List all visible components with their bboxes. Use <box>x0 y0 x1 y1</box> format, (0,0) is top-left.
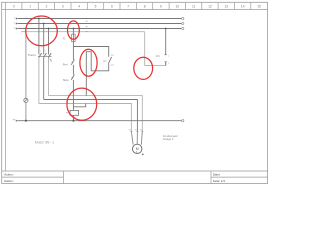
svg-text:5: 5 <box>95 5 97 9</box>
wire motor lead W <box>141 132 142 145</box>
terminal L1 end <box>182 17 184 19</box>
svg-text:3: 3 <box>45 51 46 53</box>
wire control lower <box>72 80 74 111</box>
svg-text:Trenn: Trenn <box>28 53 36 57</box>
svg-text:13: 13 <box>225 5 229 9</box>
marker L2 start <box>16 22 18 24</box>
connector X4 pins <box>164 55 167 62</box>
wire tap L3 <box>48 29 50 55</box>
terminal box X2 <box>70 110 79 115</box>
line start markers <box>16 17 18 121</box>
node lamp to PE <box>25 120 27 122</box>
wire run C <box>39 104 131 132</box>
svg-text:6: 6 <box>48 61 49 63</box>
wire run A <box>49 96 143 132</box>
switch pole 3 blade <box>48 53 51 58</box>
node connector tap <box>165 28 167 30</box>
svg-text:0: 0 <box>13 5 15 9</box>
svg-text:2: 2 <box>46 5 48 9</box>
svg-text:1: 1 <box>40 51 41 53</box>
ruler bottom line <box>2 9 268 11</box>
ruler cell dividers <box>6 3 251 10</box>
wire connector bottom stub <box>165 62 167 66</box>
svg-text:Datei:: Datei: <box>213 173 221 177</box>
wire tap L1 <box>38 19 40 55</box>
svg-text:5: 5 <box>49 51 50 53</box>
node tap L3 <box>48 28 50 30</box>
svg-text:Motor 3N~ 1: Motor 3N~ 1 <box>35 141 54 145</box>
wire tap L2 <box>43 24 45 55</box>
pushbutton Frei (NO) <box>71 59 74 64</box>
wire PE line <box>18 120 181 122</box>
svg-text:Stop: Stop <box>63 78 69 82</box>
title block <box>2 171 268 184</box>
terminal PE end <box>182 120 184 122</box>
svg-text:V1: V1 <box>135 130 137 132</box>
marker L3 start <box>16 27 18 29</box>
svg-text:Anlage 3: Anlage 3 <box>163 137 174 141</box>
line end terminals <box>182 17 184 121</box>
wire hook to run C <box>73 104 85 107</box>
disconnector Q1 3-pole switch <box>39 53 52 58</box>
svg-text:1X4: 1X4 <box>155 55 160 58</box>
wire N bus <box>21 31 145 33</box>
svg-text:1: 1 <box>29 5 31 9</box>
wire phase drop 2 <box>43 58 45 100</box>
svg-text:9: 9 <box>160 5 162 9</box>
svg-text:M: M <box>136 147 139 151</box>
node fuse tap <box>73 28 75 30</box>
svg-text:14: 14 <box>241 5 245 9</box>
svg-text:15: 15 <box>257 5 261 9</box>
switch linkage bar <box>38 55 52 57</box>
svg-text:7: 7 <box>127 5 129 9</box>
lamp / connector circle on N branch <box>24 98 28 102</box>
contact K1 13/14 <box>109 57 112 63</box>
wire fuse branch top <box>72 29 74 35</box>
terminal L2 end <box>182 22 184 24</box>
svg-text:Frei: Frei <box>63 63 68 67</box>
highlight ellipse E2 <box>68 21 80 39</box>
pushbutton Stop <box>71 75 74 80</box>
wire connector top <box>165 29 167 55</box>
wire lamp to PE line <box>25 102 27 120</box>
svg-text:4: 4 <box>78 5 80 9</box>
svg-text:Seite: 1/1: Seite: 1/1 <box>213 179 226 183</box>
svg-text:8: 8 <box>144 5 146 9</box>
fuse F1 <box>72 34 75 42</box>
switch pin numbers <box>38 51 50 64</box>
pin labels U1 V1 W1 <box>129 130 143 132</box>
conductor number marks <box>86 21 88 31</box>
junction dots <box>25 18 167 122</box>
motor terminal ticks <box>130 130 143 132</box>
wire phase drop 3 <box>48 58 50 96</box>
node box to PE <box>72 120 74 122</box>
wire junction to contact branch <box>73 47 108 57</box>
motor leads <box>131 132 142 145</box>
wire N drop to connector <box>145 32 166 66</box>
switch handle stub <box>50 59 52 62</box>
svg-text:Datum:: Datum: <box>4 179 14 183</box>
terminal L3 end <box>182 27 184 29</box>
ruler numbers <box>13 5 261 9</box>
wire L2 <box>18 23 181 25</box>
svg-text:6: 6 <box>111 5 113 9</box>
svg-text:11: 11 <box>192 5 196 9</box>
wire fuse to junction <box>72 42 74 47</box>
marker PE start <box>16 120 18 122</box>
wire L3 <box>18 28 181 30</box>
switch pole 1 blade <box>39 53 42 58</box>
wire contact bottom loop <box>86 52 108 96</box>
svg-text:4: 4 <box>43 61 44 63</box>
marker L1 start <box>16 17 18 19</box>
motor M1 <box>133 144 144 155</box>
wire motor lead V <box>136 132 138 145</box>
page outer border <box>2 2 268 183</box>
wire motor lead U <box>131 132 133 145</box>
wire control vertical upper <box>72 47 74 60</box>
highlight ellipse E3 <box>80 49 97 76</box>
wire L1 <box>18 18 181 20</box>
svg-text:10: 10 <box>176 5 180 9</box>
wire run B <box>44 100 138 132</box>
wire box to PE <box>72 115 74 120</box>
svg-text:12: 12 <box>208 5 212 9</box>
left inner border <box>4 10 6 172</box>
highlight ellipse E4 <box>134 57 153 79</box>
node tap L2 <box>43 23 45 25</box>
wire control between switches <box>72 65 74 75</box>
wire phase drop 1 <box>38 58 40 104</box>
highlight ellipse E5 <box>67 88 97 120</box>
node tap L1 <box>38 18 40 20</box>
svg-text:W1: W1 <box>140 130 143 132</box>
switch pole 2 blade <box>44 53 47 58</box>
wire N branch to lamp <box>25 32 27 99</box>
highlight ellipse E1 <box>26 16 58 46</box>
svg-text:Author:: Author: <box>4 173 14 177</box>
svg-text:U1: U1 <box>129 130 131 132</box>
svg-text:3: 3 <box>62 5 64 9</box>
node N branch <box>25 31 27 33</box>
svg-text:2: 2 <box>38 61 39 63</box>
